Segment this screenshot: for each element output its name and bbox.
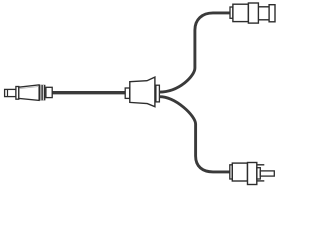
wire: main cable from DC plug to Y junction [51, 91, 126, 94]
DC plug front flange [16, 87, 19, 100]
BNC end cap [269, 5, 275, 22]
BNC connector body [233, 4, 249, 21]
Y junction collar [156, 85, 160, 102]
RCA insulator collar [257, 168, 260, 179]
BNC neck top line [258, 6, 269, 8]
RCA plug entry stub [230, 165, 233, 179]
wire: lower branch cable to RCA connector [159, 97, 230, 172]
RCA plug front flange [248, 163, 257, 185]
wire: upper branch cable to BNC connector [159, 13, 230, 92]
RCA plug body [232, 163, 247, 181]
BNC coupling nut [248, 3, 258, 23]
Y junction entry stub [125, 88, 130, 98]
BNC connector entry stub [230, 7, 233, 18]
RCA shell bottom tab [257, 180, 265, 182]
DC plug tip ring line [7, 89, 9, 96]
RCA center pin [260, 171, 274, 176]
DC plug rear cap [46, 87, 52, 97]
DC plug body [19, 85, 39, 101]
DC plug grip ridges [39, 85, 45, 101]
DC plug tip barrel [5, 89, 16, 96]
RCA shell top tab [257, 164, 265, 166]
BNC neck bottom line [258, 19, 269, 21]
Y junction molded horn body [130, 77, 155, 107]
DC plug body highlight line [20, 87, 39, 89]
